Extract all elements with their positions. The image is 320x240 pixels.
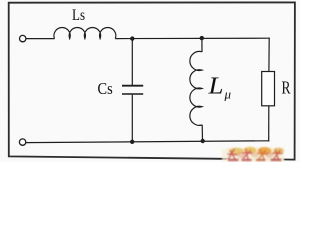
border frame (decorative) bbox=[9, 2, 295, 159]
wire (Lmu branch upper) bbox=[201, 38, 203, 52]
inductor Lmu (vertical coil) bbox=[190, 51, 202, 125]
resistor R bbox=[262, 72, 275, 106]
terminal T1 (input top) bbox=[20, 35, 26, 41]
node C (junction dot bottom, Cs branch) bbox=[130, 140, 134, 144]
wire (Lmu branch lower) bbox=[201, 125, 203, 141]
wire bbox=[115, 37, 269, 39]
wire bbox=[26, 38, 55, 40]
capacitor Cs plate top bbox=[122, 85, 143, 87]
wire (Cs branch lower) bbox=[131, 95, 133, 142]
terminal T2 (input bottom) bbox=[19, 139, 25, 145]
wire (bottom rail) bbox=[26, 141, 269, 143]
watermark (red/orange logo bottom right) bbox=[222, 147, 284, 162]
inductor Ls bbox=[54, 28, 116, 39]
node B (junction dot top, Lmu branch) bbox=[200, 36, 204, 40]
wire (right branch down to resistor) bbox=[268, 38, 270, 72]
capacitor Cs plate bottom bbox=[122, 93, 143, 95]
node A (junction dot top, Cs branch) bbox=[130, 36, 134, 40]
node D (junction dot bottom, Lmu branch) bbox=[201, 139, 205, 143]
wire (Cs branch upper) bbox=[131, 39, 133, 85]
wire (resistor bottom to bottom rail) bbox=[268, 106, 270, 142]
